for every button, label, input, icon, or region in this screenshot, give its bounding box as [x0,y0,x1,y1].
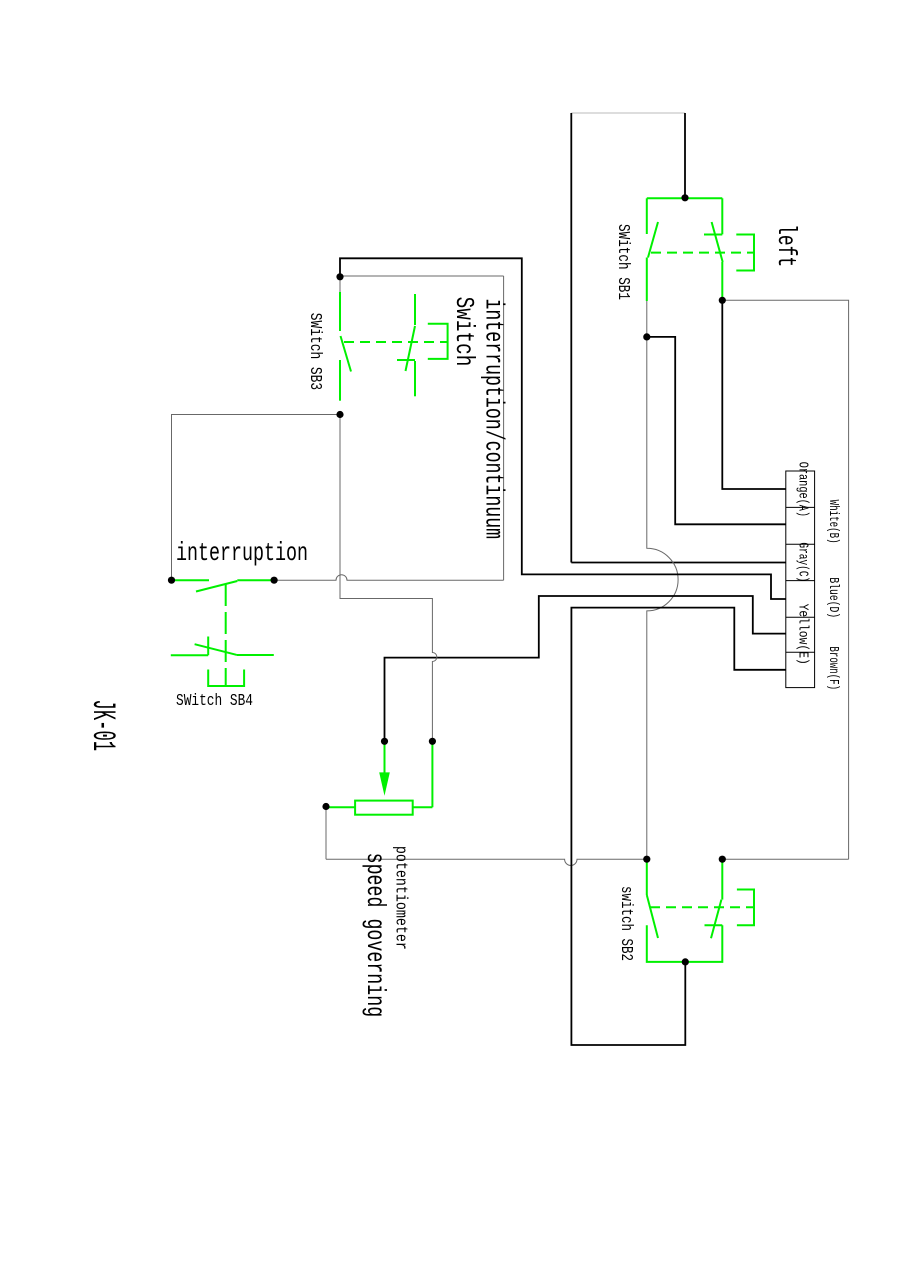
svg-text:interruption: interruption [176,538,308,568]
wire interruption switch to enclosure (hop over vertical) [274,575,504,581]
wire bottom bus right segment [722,858,848,860]
wire left riser to node C [570,113,572,563]
svg-text:Brown(F): Brown(F) [825,646,841,690]
svg-text:Switch: Switch [449,297,479,367]
wire SB1 left lead stub [646,301,648,337]
junction interruption left [168,577,175,584]
wire node F path SB2 bottom loop to Brown(F) [571,608,785,1045]
wire node E path pot wiper to Yellow(E) [385,596,786,741]
switch SB4 [171,637,274,687]
junction SB1 top [681,194,688,201]
wire SB1 left to SB2 left with crossover arc [647,337,678,859]
svg-text:Orange(A): Orange(A) [795,462,810,517]
svg-text:Blue(D): Blue(D) [825,577,841,618]
svg-text:switch SB2: switch SB2 [617,886,636,961]
junction SB3 top [336,273,343,280]
switch SB3 [340,292,448,401]
svg-text:Yellow(E): Yellow(E) [795,604,810,665]
junction SB2 left top [643,856,650,863]
wire SB3 lower axis jog to pot right (hop over horizontal) [340,415,437,742]
svg-text:potentiometer: potentiometer [392,846,411,950]
junction interruption right [271,577,278,584]
svg-text:JK-01: JK-01 [84,700,121,752]
svg-text:White(B): White(B) [825,500,841,544]
svg-text:speed governing: speed governing [360,853,390,1018]
junction SB2 right top [719,856,726,863]
junction pot wiper [381,738,388,745]
svg-text:SWitch SB4: SWitch SB4 [176,691,253,710]
wire interruption switch left branch [172,415,341,581]
wire to terminal Gray(C) [571,562,786,564]
junction SB1 left bottom [643,333,650,340]
potentiometer RP [326,741,432,814]
wire SB3 axis upper stub [339,277,341,292]
junction pot left [322,803,329,810]
junction SB3 bottom [336,411,343,418]
enclosure box top edge [340,275,504,277]
svg-text:left: left [771,224,801,267]
wire top bridge horizontal [571,112,685,114]
svg-text:Gray(C): Gray(C) [795,542,810,582]
svg-text:SWitch SB3: SWitch SB3 [306,313,325,390]
switch SB2 [647,860,755,962]
switch SB1 [647,198,754,301]
junction SB1 right bottom [719,297,726,304]
svg-text:interruption/continuum: interruption/continuum [479,299,509,540]
svg-text:SWitch SB1: SWitch SB1 [614,224,633,300]
connector block TB [786,471,815,688]
junction pot right riser [429,738,436,745]
wire SB1 right to terminal Orange(A) [722,300,786,489]
wire SB1 left to terminal White(B) [647,337,786,524]
interruption contact [172,580,275,686]
junction SB2 bottom [682,958,689,965]
wire node D path to Blue(D) [340,258,786,599]
wire bottom bus (with hop over vertical) [326,859,647,865]
enclosure box right edge [503,276,505,580]
wire pot left drop to bus [325,807,327,860]
wire SB1 right to right-side bus [722,300,848,859]
wire SB1 top riser [684,113,686,198]
